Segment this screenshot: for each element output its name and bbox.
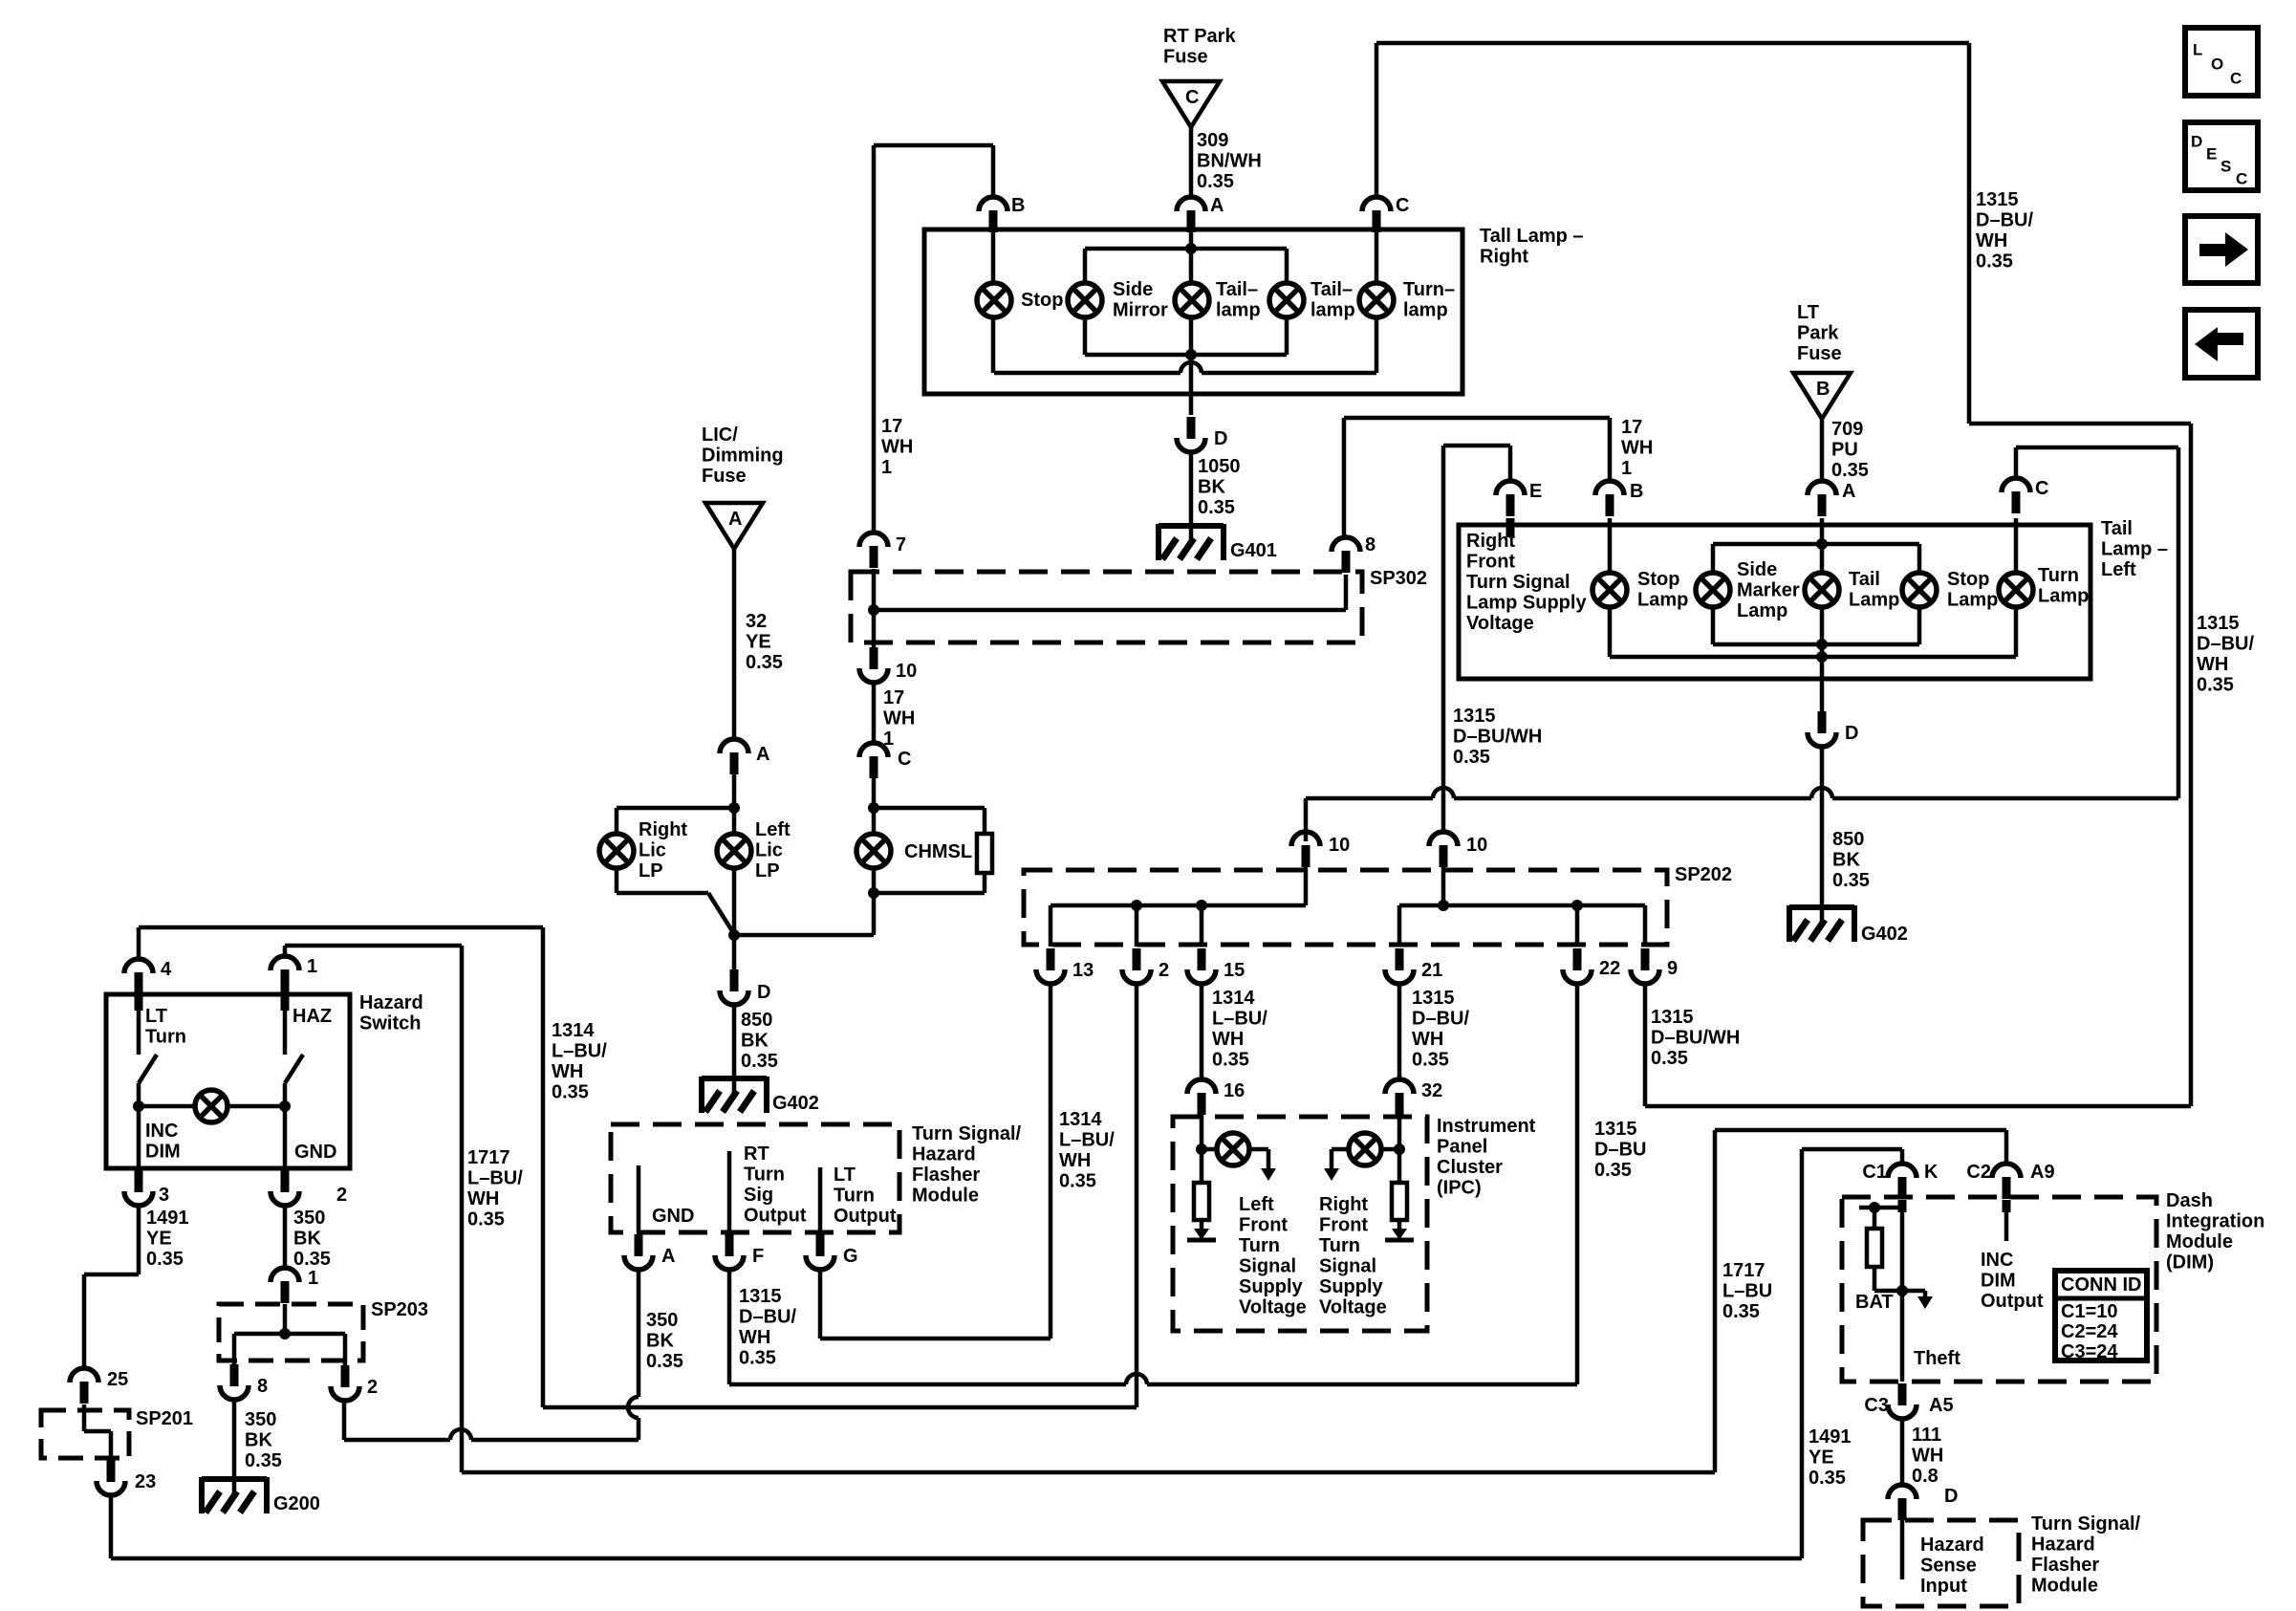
svg-text:WH: WH [881,437,913,458]
svg-text:22: 22 [1599,958,1620,979]
svg-text:309: 309 [1197,130,1228,151]
svg-text:0.35: 0.35 [1412,1050,1449,1071]
svg-text:BK: BK [646,1331,674,1352]
svg-text:G200: G200 [273,1493,320,1514]
svg-text:350: 350 [646,1310,678,1331]
svg-text:111: 111 [1912,1425,1941,1446]
svg-text:9: 9 [1667,958,1678,979]
svg-text:O: O [2211,55,2223,74]
svg-text:C1: C1 [1862,1162,1887,1183]
svg-text:Right: Right [1319,1194,1368,1215]
svg-text:Output: Output [834,1206,897,1227]
svg-text:1: 1 [308,1268,318,1289]
svg-text:0.35: 0.35 [1059,1171,1096,1192]
svg-text:A: A [1210,195,1224,216]
svg-text:A: A [756,744,769,765]
svg-text:INC: INC [1981,1250,2013,1271]
svg-text:Tail: Tail [1849,569,1880,590]
svg-text:Module: Module [912,1186,979,1207]
svg-text:Fuse: Fuse [702,466,747,487]
svg-text:1315: 1315 [1412,988,1455,1009]
svg-text:0.35: 0.35 [552,1082,589,1103]
svg-text:L: L [2193,41,2202,59]
svg-text:32: 32 [746,611,767,632]
svg-text:Signal: Signal [1319,1256,1376,1277]
svg-text:A: A [661,1246,675,1267]
svg-text:Turn Signal/: Turn Signal/ [912,1123,1022,1144]
svg-text:Side: Side [1737,559,1777,580]
svg-text:L–BU/: L–BU/ [552,1041,607,1062]
svg-text:Voltage: Voltage [1319,1297,1387,1318]
svg-text:0.35: 0.35 [1198,497,1235,518]
svg-text:WH: WH [467,1188,499,1209]
svg-text:CONN ID: CONN ID [2061,1274,2141,1295]
svg-text:Flasher: Flasher [2031,1555,2099,1576]
svg-text:0.8: 0.8 [1912,1466,1939,1487]
svg-text:LIC/: LIC/ [702,425,738,446]
svg-text:DIM: DIM [145,1142,181,1163]
svg-text:Hazard: Hazard [359,992,423,1013]
svg-text:1314: 1314 [1212,988,1255,1009]
svg-text:E: E [2206,145,2217,163]
svg-text:Lamp: Lamp [1737,600,1787,621]
svg-text:RT: RT [744,1143,769,1165]
svg-text:Turn Signal: Turn Signal [1466,572,1570,593]
svg-text:850: 850 [1832,829,1864,850]
svg-text:Side: Side [1113,279,1153,300]
svg-text:1050: 1050 [1198,456,1241,477]
svg-text:0.35: 0.35 [467,1209,505,1230]
svg-text:B: B [1011,195,1025,216]
svg-text:Signal: Signal [1239,1256,1296,1277]
svg-text:Lic: Lic [639,840,666,861]
svg-text:Cluster: Cluster [1437,1157,1503,1178]
svg-text:Turn: Turn [744,1165,785,1186]
svg-text:WH: WH [1976,230,2007,251]
svg-text:0.35: 0.35 [1453,747,1490,768]
svg-text:Turn: Turn [1239,1235,1280,1256]
svg-text:(IPC): (IPC) [1437,1178,1482,1199]
svg-text:BK: BK [1198,477,1225,498]
svg-text:D: D [1944,1486,1958,1507]
svg-text:C1=10: C1=10 [2061,1301,2118,1322]
svg-text:0.35: 0.35 [1651,1048,1688,1069]
svg-text:Module: Module [2031,1576,2098,1597]
svg-text:0.35: 0.35 [741,1051,778,1072]
svg-text:17: 17 [881,416,902,437]
svg-text:C: C [898,749,911,770]
svg-text:BAT: BAT [1855,1292,1894,1313]
svg-text:D–BU/: D–BU/ [1412,1009,1469,1030]
svg-text:C: C [2236,170,2247,188]
svg-text:Lamp Supply: Lamp Supply [1466,593,1587,614]
svg-text:0.35: 0.35 [1722,1301,1760,1322]
svg-text:10: 10 [896,661,917,682]
svg-text:BN/WH: BN/WH [1197,151,1262,172]
svg-text:1315: 1315 [739,1286,782,1307]
svg-text:Dash: Dash [2166,1190,2213,1211]
svg-text:Theft: Theft [1914,1348,1960,1369]
svg-text:YE: YE [1809,1448,1834,1469]
svg-text:C2: C2 [1966,1162,1991,1183]
svg-text:GND: GND [652,1206,694,1227]
svg-text:850: 850 [741,1010,772,1031]
svg-text:Tail–: Tail– [1310,279,1353,300]
svg-text:Supply: Supply [1319,1276,1384,1297]
svg-text:1491: 1491 [146,1208,189,1229]
svg-text:2: 2 [1159,960,1169,981]
svg-text:Turn: Turn [834,1186,875,1207]
svg-text:B: B [1630,481,1643,502]
svg-text:D: D [1845,723,1858,744]
svg-text:YE: YE [746,632,771,653]
svg-text:1314: 1314 [1059,1109,1102,1130]
svg-text:INC: INC [145,1121,178,1142]
svg-text:A9: A9 [2030,1162,2055,1183]
svg-text:Turn–: Turn– [1403,279,1455,300]
svg-text:0.35: 0.35 [1197,171,1234,192]
svg-text:CHMSL: CHMSL [904,841,972,862]
svg-text:Input: Input [1920,1576,1967,1597]
svg-text:Tall Lamp –: Tall Lamp – [1480,226,1584,247]
svg-text:Front: Front [1319,1215,1368,1236]
svg-text:15: 15 [1224,960,1245,981]
svg-text:C: C [1396,195,1409,216]
svg-text:YE: YE [146,1229,172,1250]
svg-text:D: D [1214,428,1227,449]
svg-text:Front: Front [1466,552,1515,573]
svg-text:DIM: DIM [1981,1271,2016,1292]
svg-text:LT: LT [145,1006,167,1027]
svg-text:L–BU: L–BU [1722,1281,1772,1302]
svg-text:SP302: SP302 [1370,568,1427,589]
svg-text:S: S [2220,158,2231,176]
svg-text:Front: Front [1239,1215,1288,1236]
svg-text:1314: 1314 [552,1020,595,1041]
svg-text:D: D [757,982,770,1003]
svg-text:Lamp –: Lamp – [2101,539,2168,560]
svg-text:D–BU/: D–BU/ [739,1307,796,1328]
svg-text:1: 1 [881,457,892,478]
svg-text:1: 1 [307,956,317,977]
svg-text:BK: BK [1832,850,1860,871]
svg-text:A: A [728,509,742,530]
svg-text:WH: WH [1212,1029,1244,1050]
svg-text:C3=24: C3=24 [2061,1341,2118,1362]
svg-text:1315: 1315 [2197,613,2240,634]
svg-text:1717: 1717 [1722,1260,1765,1281]
svg-text:Dimming: Dimming [702,446,784,467]
svg-text:Mirror: Mirror [1113,300,1168,321]
svg-text:10: 10 [1466,835,1487,856]
svg-text:C2=24: C2=24 [2061,1321,2118,1342]
svg-text:C3: C3 [1864,1395,1889,1416]
svg-text:25: 25 [107,1369,128,1390]
svg-text:709: 709 [1831,419,1863,440]
svg-text:B: B [1816,379,1830,400]
svg-text:PU: PU [1831,440,1858,461]
svg-text:Fuse: Fuse [1797,343,1842,364]
svg-text:L–BU/: L–BU/ [467,1168,523,1189]
svg-text:Right: Right [1480,247,1528,268]
svg-text:BK: BK [741,1031,769,1052]
svg-text:L–BU/: L–BU/ [1059,1130,1115,1151]
svg-text:Fuse: Fuse [1163,47,1208,68]
svg-text:0.35: 0.35 [1212,1050,1249,1071]
svg-text:D–BU/WH: D–BU/WH [1453,727,1542,748]
svg-text:7: 7 [896,534,906,555]
svg-text:WH: WH [1059,1150,1091,1171]
svg-text:Hazard: Hazard [912,1144,976,1165]
svg-text:Supply: Supply [1239,1276,1304,1297]
svg-text:BK: BK [293,1229,321,1250]
svg-text:Switch: Switch [359,1013,421,1034]
svg-text:1: 1 [1621,458,1632,479]
svg-text:16: 16 [1224,1080,1245,1101]
svg-text:LT: LT [1797,302,1819,323]
svg-text:2: 2 [367,1377,378,1398]
svg-text:Stop: Stop [1637,569,1679,590]
svg-text:8: 8 [1365,534,1375,555]
svg-text:0.35: 0.35 [746,652,783,673]
svg-text:lamp: lamp [1403,300,1448,321]
svg-text:C: C [2035,478,2048,499]
svg-text:G402: G402 [772,1093,819,1114]
svg-text:WH: WH [1912,1446,1943,1467]
svg-text:G401: G401 [1230,540,1277,561]
svg-text:1717: 1717 [467,1147,510,1168]
svg-text:0.35: 0.35 [646,1351,683,1372]
svg-text:13: 13 [1072,960,1094,981]
svg-text:1315: 1315 [1976,189,2019,210]
svg-text:C: C [2230,70,2242,88]
svg-text:Flasher: Flasher [912,1165,980,1186]
svg-text:(DIM): (DIM) [2166,1252,2214,1274]
svg-text:4: 4 [161,959,172,980]
svg-text:WH: WH [1412,1029,1443,1050]
svg-text:lamp: lamp [1216,300,1261,321]
svg-text:0.35: 0.35 [1594,1160,1632,1181]
svg-text:WH: WH [739,1327,770,1348]
svg-text:0.35: 0.35 [245,1450,282,1471]
svg-text:K: K [1924,1162,1939,1183]
svg-text:Lamp: Lamp [2038,586,2089,607]
svg-text:23: 23 [135,1471,156,1492]
svg-text:G: G [843,1246,858,1267]
svg-text:F: F [752,1246,764,1267]
svg-text:Tail: Tail [2101,518,2133,539]
svg-text:HAZ: HAZ [292,1006,332,1027]
svg-text:1315: 1315 [1594,1119,1637,1140]
svg-text:Park: Park [1797,323,1839,344]
svg-text:Stop: Stop [1947,569,1989,590]
svg-text:Turn: Turn [2038,565,2079,586]
svg-text:1491: 1491 [1809,1426,1852,1448]
svg-text:Turn: Turn [145,1027,186,1048]
svg-text:WH: WH [2197,654,2228,675]
svg-text:Lamp: Lamp [1947,590,1998,611]
svg-text:21: 21 [1421,960,1442,981]
svg-text:0.35: 0.35 [2197,675,2234,696]
svg-text:0.35: 0.35 [739,1348,776,1369]
svg-text:Tail–: Tail– [1216,279,1258,300]
svg-text:WH: WH [883,708,915,729]
svg-text:8: 8 [257,1376,268,1397]
svg-text:0.35: 0.35 [1809,1468,1846,1489]
svg-text:WH: WH [1621,438,1653,459]
svg-text:Hazard: Hazard [1920,1535,1984,1556]
svg-text:Turn Signal/: Turn Signal/ [2031,1513,2141,1535]
svg-text:0.35: 0.35 [293,1249,331,1270]
svg-text:0.35: 0.35 [146,1249,184,1270]
svg-text:Lamp: Lamp [1637,590,1688,611]
svg-text:0.35: 0.35 [1976,251,2013,272]
svg-text:Voltage: Voltage [1466,613,1534,634]
svg-text:Turn: Turn [1319,1235,1360,1256]
svg-text:A: A [1842,481,1855,502]
svg-text:E: E [1529,481,1542,502]
svg-text:Left: Left [1239,1194,1274,1215]
svg-text:0.35: 0.35 [1831,460,1869,481]
svg-text:Sig: Sig [744,1185,773,1206]
svg-text:A5: A5 [1929,1395,1954,1416]
svg-text:D: D [2191,133,2202,151]
svg-text:Integration: Integration [2166,1211,2264,1232]
svg-text:Module: Module [2166,1231,2233,1252]
svg-text:LT: LT [834,1165,856,1186]
svg-text:Lic: Lic [755,840,783,861]
svg-text:SP203: SP203 [371,1299,428,1320]
svg-text:Panel: Panel [1437,1137,1487,1158]
svg-text:Sense: Sense [1920,1556,1977,1577]
svg-text:D–BU/: D–BU/ [1976,210,2033,231]
svg-text:LP: LP [755,860,780,882]
svg-text:350: 350 [293,1208,325,1229]
svg-text:Output: Output [1981,1291,2044,1312]
svg-text:WH: WH [552,1061,583,1082]
svg-text:G402: G402 [1861,924,1908,945]
svg-text:32: 32 [1421,1080,1442,1101]
svg-text:L–BU/: L–BU/ [1212,1009,1267,1030]
svg-text:1315: 1315 [1453,706,1496,727]
svg-text:17: 17 [883,687,904,708]
svg-text:Right: Right [639,819,687,840]
svg-text:D–BU/: D–BU/ [2197,634,2254,655]
svg-text:C: C [1185,87,1199,108]
svg-text:2: 2 [336,1185,347,1206]
svg-text:Voltage: Voltage [1239,1297,1307,1318]
svg-text:0.35: 0.35 [1832,870,1870,891]
svg-text:lamp: lamp [1310,300,1355,321]
svg-text:Lamp: Lamp [1849,590,1899,611]
svg-text:Hazard: Hazard [2031,1535,2095,1556]
svg-text:1315: 1315 [1651,1007,1694,1028]
svg-text:Output: Output [744,1206,807,1227]
svg-text:LP: LP [639,860,663,882]
svg-text:Stop: Stop [1021,290,1063,311]
svg-text:17: 17 [1621,417,1642,438]
svg-text:RT Park: RT Park [1163,26,1236,47]
svg-text:GND: GND [294,1142,336,1163]
svg-text:SP201: SP201 [136,1408,193,1429]
svg-text:BK: BK [245,1430,272,1451]
svg-text:3: 3 [159,1185,169,1206]
svg-text:Left: Left [2101,559,2136,580]
svg-text:D–BU: D–BU [1594,1140,1646,1161]
svg-text:SP202: SP202 [1675,864,1732,885]
svg-text:Left: Left [755,819,791,840]
svg-text:Instrument: Instrument [1437,1116,1536,1137]
svg-text:10: 10 [1329,835,1350,856]
svg-text:D–BU/WH: D–BU/WH [1651,1028,1740,1049]
svg-text:350: 350 [245,1409,276,1430]
svg-text:Marker: Marker [1737,580,1800,601]
